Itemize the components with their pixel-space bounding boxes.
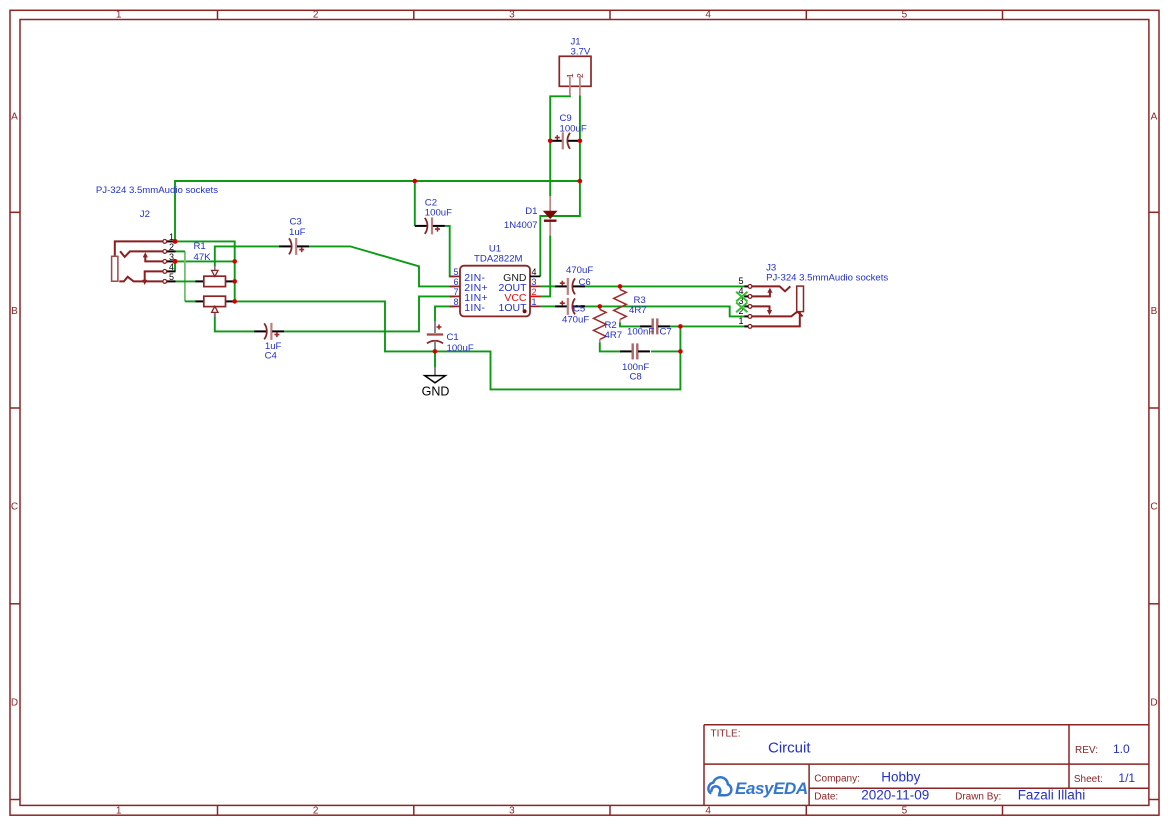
connector J2 xyxy=(112,240,176,286)
svg-text:C7: C7 xyxy=(660,327,672,338)
svg-text:3: 3 xyxy=(509,806,515,817)
capacitor C3 xyxy=(279,238,309,255)
svg-text:8: 8 xyxy=(453,297,458,307)
resistor R2 xyxy=(594,306,607,342)
wire: C7 junction down to C8 junction xyxy=(679,326,681,351)
wire: diode cathode down to VCC pin 2 xyxy=(540,236,550,297)
svg-text:5: 5 xyxy=(169,272,174,282)
svg-text:1: 1 xyxy=(738,316,743,326)
svg-text:C9: C9 xyxy=(560,113,572,124)
svg-text:2: 2 xyxy=(575,73,585,78)
svg-text:Drawn By:: Drawn By: xyxy=(955,792,1001,803)
junction: C1 bottom / ground rail xyxy=(433,349,438,354)
svg-text:C1: C1 xyxy=(447,332,459,343)
svg-text:3.7V: 3.7V xyxy=(571,47,591,58)
svg-text:1/1: 1/1 xyxy=(1118,771,1135,785)
svg-text:D1: D1 xyxy=(525,206,537,217)
svg-text:47K: 47K xyxy=(194,252,212,263)
svg-text:Fazali Illahi: Fazali Illahi xyxy=(1018,788,1086,803)
svg-text:4R7: 4R7 xyxy=(605,330,623,341)
svg-text:J2: J2 xyxy=(140,209,150,220)
svg-text:A: A xyxy=(11,112,18,123)
junction: C9 right xyxy=(578,139,583,144)
svg-text:C6: C6 xyxy=(579,277,591,288)
svg-text:2: 2 xyxy=(169,242,174,252)
svg-text:4: 4 xyxy=(532,267,537,277)
junction: C6 out / R3 top xyxy=(618,284,623,289)
svg-text:Circuit: Circuit xyxy=(768,740,811,757)
wire: J1 pin1 down-left to diode column xyxy=(550,95,570,196)
svg-text:GND: GND xyxy=(422,384,450,398)
junction: C8 right xyxy=(678,349,683,354)
svg-text:4: 4 xyxy=(705,10,711,21)
J3 no-connect X pin4 xyxy=(736,292,747,302)
svg-text:Sheet:: Sheet: xyxy=(1074,774,1103,785)
diode D1 xyxy=(544,196,557,236)
svg-text:3: 3 xyxy=(509,10,515,21)
svg-text:100uF: 100uF xyxy=(447,343,474,354)
svg-text:470uF: 470uF xyxy=(562,315,589,326)
svg-text:C: C xyxy=(11,502,18,513)
svg-text:R1: R1 xyxy=(194,241,206,252)
wire: ground rail from J2 pin1 up and across to J1 pin2 column xyxy=(175,181,580,241)
svg-text:1IN-: 1IN- xyxy=(464,302,485,314)
svg-text:100uF: 100uF xyxy=(425,208,452,219)
wire: C8 right lead to junction xyxy=(651,350,680,352)
resistor R3 xyxy=(614,286,627,322)
svg-text:1: 1 xyxy=(565,73,575,78)
svg-text:4: 4 xyxy=(169,262,174,272)
wire: R1 lower box right to ground net run xyxy=(235,301,681,389)
junction: rail / J1 pin2 corner xyxy=(578,179,583,184)
wire xyxy=(309,246,455,286)
svg-text:1: 1 xyxy=(532,297,537,307)
capacitor C8 xyxy=(620,343,650,359)
svg-text:C8: C8 xyxy=(630,372,642,383)
wire: rail corner down to U1 GND pin 4 xyxy=(540,181,580,276)
wire: R2 bottom to C8 xyxy=(600,343,621,352)
J3 no-connect X pin3 xyxy=(736,302,747,312)
wire: J2 pin2 stub to corner xyxy=(176,250,185,252)
svg-text:7: 7 xyxy=(453,287,458,297)
wire: C2 drop from rail xyxy=(414,181,416,226)
wire: J2 pin5 to R1 upper box xyxy=(176,280,196,282)
svg-text:2: 2 xyxy=(313,806,319,817)
wire: C6 to J3 pin5 xyxy=(585,285,744,287)
wire: lower R1 box left lead in xyxy=(185,300,195,302)
wire: C2 to U1 pin 5 xyxy=(445,226,455,277)
op-amp U1 TDA2822M xyxy=(450,266,541,317)
title block xyxy=(704,725,1149,806)
wire: J1 pin2 column down to rail xyxy=(579,95,581,181)
capacitor C2 xyxy=(415,217,445,234)
capacitor C1 xyxy=(427,321,443,351)
capacitor C6 xyxy=(555,278,585,295)
junction: R1 upper box right xyxy=(232,279,237,284)
svg-text:TITLE:: TITLE: xyxy=(711,729,741,740)
wire: J2 pin2 down to R1 lower box (light) xyxy=(184,251,186,301)
svg-text:5: 5 xyxy=(902,806,908,817)
junction: J2 pin3 xyxy=(173,259,178,264)
svg-text:1.0: 1.0 xyxy=(1113,742,1130,756)
wire: C4 row to U1 pin 7 xyxy=(215,312,255,332)
svg-text:1N4007: 1N4007 xyxy=(504,220,538,231)
svg-text:100uF: 100uF xyxy=(560,124,587,135)
potentiometer R1 xyxy=(195,266,235,317)
wire xyxy=(284,296,455,331)
svg-text:1OUT: 1OUT xyxy=(498,302,527,314)
svg-text:Hobby: Hobby xyxy=(881,770,920,785)
wire: C7 to J3 pin1 xyxy=(670,325,744,327)
svg-text:100nF: 100nF xyxy=(627,327,654,338)
wire: U1 pin1 1OUT to C5 xyxy=(541,305,555,307)
svg-text:6: 6 xyxy=(453,277,458,287)
wire: R3 bottom to C7 xyxy=(620,323,641,327)
svg-text:1uF: 1uF xyxy=(289,227,306,238)
EasyEDA logo xyxy=(708,777,808,798)
svg-text:2: 2 xyxy=(313,10,319,21)
svg-text:1: 1 xyxy=(116,806,122,817)
connector J3 xyxy=(744,285,803,329)
junction: R1 lower box right xyxy=(232,299,237,304)
junction: node at R1 column pin3 row xyxy=(232,259,237,264)
svg-text:470uF: 470uF xyxy=(566,265,593,276)
svg-text:C: C xyxy=(1150,502,1157,513)
wire: J2 pin3 row xyxy=(176,260,235,262)
wire: J2 pin3 to pin4 jog xyxy=(174,261,176,271)
svg-text:C5: C5 xyxy=(573,304,585,315)
svg-text:TDA2822M: TDA2822M xyxy=(474,254,523,265)
svg-text:C4: C4 xyxy=(265,351,278,362)
svg-text:5: 5 xyxy=(738,276,743,286)
capacitor C5 xyxy=(555,298,585,315)
svg-text:1: 1 xyxy=(116,10,122,21)
connector J1 xyxy=(559,56,591,95)
capacitor C9 xyxy=(550,132,580,149)
svg-text:4: 4 xyxy=(705,806,711,817)
wire: U1 pin3 2OUT to C6 xyxy=(541,285,555,287)
svg-text:EasyEDA: EasyEDA xyxy=(735,779,808,798)
svg-text:3: 3 xyxy=(532,277,537,287)
svg-text:C3: C3 xyxy=(290,217,302,228)
wire: C5 to J3 pin2 xyxy=(585,306,744,316)
ground symbol xyxy=(425,367,446,383)
junction: C7 right xyxy=(678,324,683,329)
junction: C5 out / R2 top xyxy=(598,304,603,309)
svg-text:D: D xyxy=(11,697,18,708)
svg-text:B: B xyxy=(11,306,18,317)
junction: C9 left xyxy=(548,139,553,144)
svg-text:Company:: Company: xyxy=(814,774,860,785)
svg-text:5: 5 xyxy=(902,10,908,21)
junction: rail / C2 tap xyxy=(413,179,418,184)
svg-text:2020-11-09: 2020-11-09 xyxy=(861,788,929,803)
wire: U1 pin8 to C1 xyxy=(435,306,455,321)
svg-text:D: D xyxy=(1150,697,1157,708)
svg-text:PJ-324 3.5mmAudio sockets: PJ-324 3.5mmAudio sockets xyxy=(766,273,888,284)
svg-text:B: B xyxy=(1151,306,1158,317)
svg-text:A: A xyxy=(1151,112,1158,123)
junction: J2 pin1 xyxy=(173,239,178,244)
capacitor C7 xyxy=(640,318,670,334)
svg-text:REV:: REV: xyxy=(1075,745,1098,756)
wire: J2 pin1 to R1 column xyxy=(175,241,235,301)
svg-text:4R7: 4R7 xyxy=(629,305,647,316)
svg-text:Date:: Date: xyxy=(814,792,838,803)
svg-text:2: 2 xyxy=(532,287,537,297)
svg-text:5: 5 xyxy=(453,267,458,277)
wire: C3 row from wiper corner through diag to U1 pin 6 xyxy=(215,246,279,266)
capacitor C4 xyxy=(254,323,284,340)
wire: C1 bottom to gnd symbol xyxy=(434,351,436,367)
svg-text:PJ-324 3.5mmAudio sockets: PJ-324 3.5mmAudio sockets xyxy=(96,185,218,196)
